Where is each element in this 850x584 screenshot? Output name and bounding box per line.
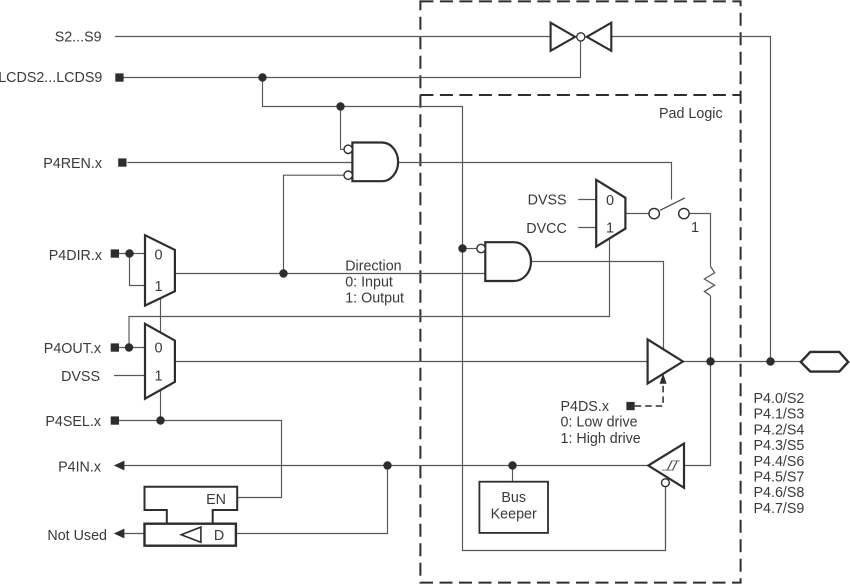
svg-text:P4.3/S5: P4.3/S5 <box>754 438 805 454</box>
node P4IN buskeeper <box>508 461 516 469</box>
terminal square P4OUT <box>111 343 119 351</box>
wire LCDS branch down-right to long vertical <box>263 78 666 551</box>
terminal square P4REN <box>118 158 126 166</box>
svg-text:DVSS: DVSS <box>61 369 100 385</box>
wire P4DIR.x branch to mux A input 1 <box>130 254 146 286</box>
terminal square P4DS <box>626 402 634 410</box>
terminal square P4SEL <box>111 416 119 424</box>
node pad 2 <box>766 357 774 365</box>
wire DVSS to mux C input 0 <box>578 199 596 201</box>
svg-text:P4.5/S7: P4.5/S7 <box>754 470 805 486</box>
wire resistor to pad line <box>710 296 712 362</box>
wire schmitt enable from bubble down <box>665 487 667 551</box>
wire P4OUT.x branch to mux C select <box>129 239 610 348</box>
node pad 1 <box>706 357 714 365</box>
svg-text:P4.6/S8: P4.6/S8 <box>754 485 805 501</box>
svg-text:1: 1 <box>154 369 162 385</box>
svg-text:DVCC: DVCC <box>526 221 567 237</box>
svg-text:Bus: Bus <box>501 490 526 506</box>
pad logic inner dashed divider <box>420 94 740 96</box>
wire branch to NAND U2 bubble <box>463 248 478 250</box>
bubble U4 enable <box>662 479 670 487</box>
svg-text:P4.2/S4: P4.2/S4 <box>754 422 805 438</box>
mux C DVSS/DVCC <box>596 180 625 247</box>
mux B P4OUT <box>145 324 175 399</box>
node direction <box>279 269 287 277</box>
svg-text:Keeper: Keeper <box>491 506 537 522</box>
wire DVCC to mux C input 1 <box>578 227 596 229</box>
wire P4IN branch to D latch <box>236 466 388 534</box>
svg-text:1: Output: 1: Output <box>345 291 404 307</box>
wire AND U1 output to switch control <box>398 163 671 200</box>
svg-text:LCDS2...LCDS9: LCDS2...LCDS9 <box>0 70 102 86</box>
schmitt symbol <box>662 461 680 470</box>
svg-text:0: 0 <box>606 193 614 209</box>
wire branch to AND U1 top bubble <box>341 107 345 150</box>
wire direction line to AND U1 bottom bubble <box>284 175 345 273</box>
wire schmitt output P4IN line <box>124 465 648 467</box>
resistor R1 <box>704 266 714 295</box>
svg-text:DVSS: DVSS <box>528 193 567 209</box>
svg-text:0: Low drive: 0: Low drive <box>561 415 638 431</box>
switch blade <box>660 198 685 210</box>
wire NAND U2 output to driver enable <box>529 262 663 350</box>
driver buffer U3 <box>648 339 683 383</box>
terminal square LCDS <box>115 73 123 81</box>
wire mux B output to driver <box>175 361 648 363</box>
bus keeper box <box>479 482 548 533</box>
wire transmission gate to pad net <box>611 37 770 362</box>
arrow P4IN <box>114 461 125 471</box>
arrow Not Used <box>114 529 125 539</box>
node LCDS branch <box>258 73 266 81</box>
transmission gate U5 <box>551 23 612 51</box>
wire switch to resistor <box>689 214 710 267</box>
and gate U1 <box>352 143 398 182</box>
svg-text:P4SEL.x: P4SEL.x <box>45 414 101 430</box>
wire S2...S9 to transmission gate <box>115 36 551 38</box>
EN latch box <box>145 487 238 524</box>
node P4IN D <box>383 461 391 469</box>
svg-text:P4REN.x: P4REN.x <box>43 156 102 172</box>
bubble U1 input A <box>344 145 352 153</box>
svg-text:P4.4/S6: P4.4/S6 <box>754 454 805 470</box>
wire mux C output to switch <box>625 213 649 215</box>
wire mux A output Direction <box>175 273 485 275</box>
wire P4SEL.x to EN <box>118 421 281 498</box>
pad symbol <box>801 352 848 372</box>
wire mux A select from P4SEL <box>160 299 162 421</box>
wire P4OUT.x to mux B input 0 <box>118 347 145 349</box>
node LCDS branch 2 <box>336 102 344 110</box>
svg-text:P4.1/S3: P4.1/S3 <box>754 407 805 423</box>
svg-text:Direction: Direction <box>345 259 401 275</box>
svg-text:1: High drive: 1: High drive <box>561 431 641 447</box>
wire P4DIR.x to mux A input 0 <box>118 253 145 255</box>
schmitt input buffer U4 <box>648 444 684 488</box>
bubble U2 input A <box>477 244 485 252</box>
node P4SEL <box>156 416 164 424</box>
svg-text:Not Used: Not Used <box>47 528 107 544</box>
svg-text:1: 1 <box>691 220 699 236</box>
wire DVSS to mux B input 1 <box>114 375 145 377</box>
wire LCDS2...LCDS9 to TG control <box>123 41 581 77</box>
D latch box <box>145 524 236 546</box>
svg-text:P4OUT.x: P4OUT.x <box>44 341 101 357</box>
svg-text:P4DIR.x: P4DIR.x <box>49 248 102 264</box>
nand gate U2 <box>485 242 531 281</box>
node NAND input <box>458 244 466 252</box>
svg-text:1: 1 <box>606 221 614 237</box>
svg-text:EN: EN <box>206 492 226 508</box>
wire P4REN.x to AND U1 middle input <box>127 162 352 164</box>
wire pad line down to schmitt input <box>684 362 711 466</box>
svg-text:0: 0 <box>154 341 162 357</box>
terminal square P4DIR <box>111 249 119 257</box>
svg-text:P4DS.x: P4DS.x <box>561 399 609 415</box>
mux A P4DIR <box>145 235 175 305</box>
svg-text:Pad Logic: Pad Logic <box>659 106 723 122</box>
wire Not Used stub <box>124 533 144 535</box>
outer dashed box <box>420 1 740 582</box>
D latch clock triangle <box>181 527 201 542</box>
bubble U1 input C <box>344 171 352 179</box>
svg-text:1: 1 <box>154 279 162 295</box>
svg-text:S2...S9: S2...S9 <box>55 30 102 46</box>
svg-text:P4.7/S9: P4.7/S9 <box>754 501 805 517</box>
svg-text:0: 0 <box>154 248 162 264</box>
switch contact 2 <box>679 208 689 218</box>
node P4OUT <box>125 343 133 351</box>
svg-text:P4.0/S2: P4.0/S2 <box>754 391 805 407</box>
P4DS dashed control arrow <box>635 384 663 407</box>
wire driver output to pad <box>683 361 801 363</box>
svg-text:0: Input: 0: Input <box>345 275 393 291</box>
svg-text:P4IN.x: P4IN.x <box>58 459 101 475</box>
switch contact 1 <box>649 208 659 218</box>
node P4DIR <box>125 249 133 257</box>
svg-text:D: D <box>214 528 224 544</box>
wire bus keeper stub <box>512 466 514 482</box>
